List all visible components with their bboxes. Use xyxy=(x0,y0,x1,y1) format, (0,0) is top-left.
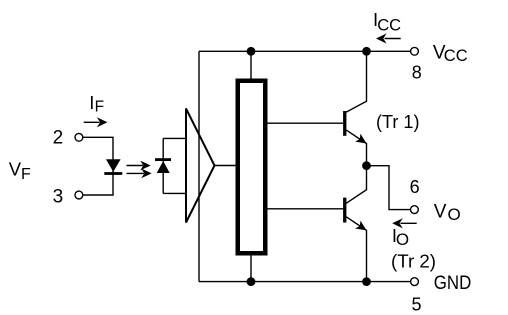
svg-text:2: 2 xyxy=(53,128,64,149)
svg-text:(Tr 2): (Tr 2) xyxy=(391,250,436,271)
svg-text:3: 3 xyxy=(53,186,64,207)
svg-text:8: 8 xyxy=(412,63,422,83)
svg-text:6: 6 xyxy=(410,177,420,197)
svg-text:(Tr 1): (Tr 1) xyxy=(376,111,420,132)
svg-text:GND: GND xyxy=(434,273,472,294)
svg-text:5: 5 xyxy=(412,295,422,315)
svg-text:VO: VO xyxy=(434,202,461,224)
